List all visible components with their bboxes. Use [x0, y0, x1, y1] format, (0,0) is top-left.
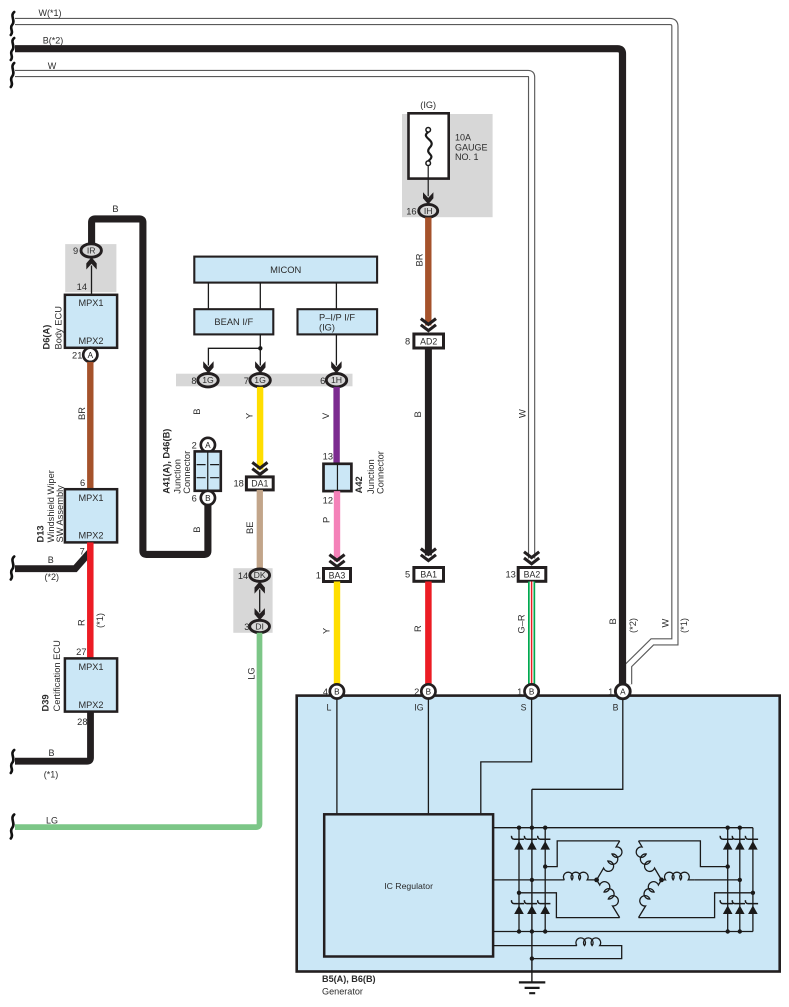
svg-text:14: 14	[77, 282, 87, 292]
svg-text:BR: BR	[414, 253, 424, 266]
wire branch to 1G-8	[203, 348, 260, 373]
fuse block gray box	[402, 114, 493, 217]
svg-text:A: A	[205, 441, 211, 450]
junction connector A42	[324, 464, 352, 491]
box IC Regulator	[324, 814, 493, 956]
svg-text:10A: 10A	[455, 133, 471, 143]
gray box IR	[65, 244, 116, 292]
wire junction to 1G-7	[255, 348, 265, 373]
label D39 Certification ECU	[41, 640, 63, 711]
wire W white feed	[15, 61, 532, 559]
terminal B generator pin 4 (L)	[323, 684, 344, 698]
connector BA2 pin 13	[505, 568, 545, 582]
svg-text:S: S	[521, 702, 527, 712]
wire G-R green-red BA2 to generator S	[517, 582, 532, 685]
wire MICON to BEAN right	[259, 283, 261, 310]
svg-text:W: W	[48, 61, 57, 71]
svg-text:MPX1: MPX1	[78, 662, 103, 672]
wire P pink A42 to BA3	[321, 491, 337, 561]
terminal A A41 pin 2	[192, 438, 215, 452]
svg-text:1: 1	[608, 687, 613, 697]
wire LG green DI to brace	[15, 633, 260, 827]
svg-text:A41(A), D46(B): A41(A), D46(B)	[162, 429, 172, 494]
stator left coil horizontal	[563, 872, 596, 880]
ECU D6(A) Body ECU MPX box	[65, 295, 117, 348]
wire BR brown	[414, 217, 428, 325]
label W (*1) vertical	[660, 618, 689, 633]
svg-text:B5(A), B6(B): B5(A), B6(B)	[322, 974, 376, 984]
wire MICON to BEAN left	[207, 283, 209, 310]
chevron into DA1	[252, 462, 267, 474]
svg-text:BEAN I/F: BEAN I/F	[214, 317, 253, 327]
svg-text:W: W	[660, 619, 670, 628]
svg-text:4: 4	[323, 687, 328, 697]
svg-text:B: B	[48, 748, 54, 758]
box P-I/P I/F (IG)	[298, 309, 378, 334]
terminal B A41 pin 6	[192, 491, 215, 505]
wire B thick IR loop to A41-B	[92, 204, 208, 555]
svg-text:13: 13	[505, 570, 515, 580]
chevron into BA1	[421, 549, 436, 561]
label S terminal	[481, 699, 532, 815]
svg-text:B: B	[426, 687, 432, 696]
ECU D39 Certification ECU MPX box	[65, 658, 117, 711]
label pin 7 D13	[80, 546, 85, 556]
svg-text:Connector: Connector	[376, 451, 386, 494]
stator right coil lower	[639, 880, 662, 918]
phase mid dots	[517, 864, 755, 895]
wire R red D13 to D39	[77, 542, 105, 658]
wire BR brown D6 to D13	[77, 362, 90, 489]
svg-text:1: 1	[517, 687, 522, 697]
svg-text:B: B	[205, 494, 211, 503]
svg-text:MPX1: MPX1	[78, 298, 103, 308]
svg-text:14: 14	[238, 571, 248, 581]
svg-text:Certification ECU: Certification ECU	[52, 640, 62, 711]
connector DA1 pin 18	[233, 477, 273, 490]
stator right coil upper	[636, 841, 661, 880]
label B above A41	[192, 409, 202, 415]
ground symbol	[519, 982, 545, 993]
svg-text:13: 13	[323, 451, 333, 461]
svg-text:8: 8	[191, 376, 196, 386]
svg-text:(*1): (*1)	[679, 618, 689, 633]
rectifier column 4	[739, 828, 741, 932]
svg-text:21: 21	[72, 350, 82, 360]
rectifier diodes	[511, 836, 758, 914]
label pin 28 D39	[77, 717, 87, 727]
svg-text:IH: IH	[424, 206, 433, 216]
svg-text:LG: LG	[46, 815, 58, 825]
svg-text:(*2): (*2)	[628, 618, 638, 633]
svg-text:AD2: AD2	[420, 336, 437, 346]
svg-text:B: B	[413, 411, 423, 417]
svg-text:2: 2	[414, 687, 419, 697]
label B (*2) vertical	[608, 618, 638, 633]
connector IH pin 16	[406, 204, 437, 217]
svg-text:D39: D39	[41, 694, 51, 711]
connector BA1 pin 5	[405, 568, 443, 582]
label D6(A) Body ECU	[42, 306, 64, 349]
svg-text:27: 27	[76, 647, 86, 657]
label B terminal	[532, 699, 623, 790]
svg-text:BA3: BA3	[329, 570, 346, 580]
connector IR pin 9	[73, 244, 101, 257]
chevron into BA3	[329, 555, 344, 567]
svg-text:V: V	[321, 412, 331, 419]
svg-text:DA1: DA1	[251, 479, 268, 489]
ECU D13 Windshield Wiper SW MPX box	[65, 489, 117, 542]
svg-text:IG: IG	[414, 702, 423, 712]
svg-text:12: 12	[323, 496, 333, 506]
svg-text:DI: DI	[255, 622, 264, 632]
stator left center node	[594, 878, 599, 883]
svg-text:DK: DK	[254, 570, 266, 580]
svg-text:7: 7	[80, 546, 85, 556]
curly brace B(*1) left	[11, 750, 14, 773]
svg-text:B(*2): B(*2)	[43, 36, 64, 46]
arrow into IR	[77, 257, 97, 295]
gray box DK DI	[233, 568, 272, 633]
svg-text:BA2: BA2	[524, 570, 541, 580]
curly brace W	[11, 63, 14, 87]
svg-text:(*2): (*2)	[45, 572, 60, 582]
svg-text:(*1): (*1)	[95, 613, 105, 628]
label pin 27 D39	[76, 647, 86, 657]
svg-text:B: B	[112, 204, 118, 214]
chevron into AD2	[421, 319, 436, 331]
curly brace LG left	[11, 815, 14, 839]
curly brace B(*2) left	[11, 557, 14, 580]
svg-text:Y: Y	[244, 413, 254, 419]
wire R red BA1 to generator IG	[413, 582, 428, 685]
rotor field winding	[493, 946, 622, 959]
terminal A D6 pin 21	[72, 348, 97, 362]
stator right center node	[659, 878, 664, 883]
label A42 Junction Connector	[354, 451, 386, 494]
connector DI pin 3	[244, 620, 269, 632]
svg-text:1G: 1G	[202, 375, 214, 385]
svg-text:(IG): (IG)	[319, 323, 335, 333]
svg-text:B: B	[48, 555, 54, 565]
stator left phase lines	[493, 841, 620, 918]
chevron into BA2	[524, 552, 539, 564]
terminal B generator pin 2 (IG)	[414, 684, 435, 698]
svg-text:Junction: Junction	[366, 459, 376, 494]
svg-text:9: 9	[73, 246, 78, 256]
svg-text:R: R	[77, 619, 87, 626]
svg-text:B: B	[192, 527, 202, 533]
connector 1G pin 8	[191, 374, 218, 387]
svg-text:MPX2: MPX2	[78, 531, 103, 541]
connector BA3 pin 1	[316, 569, 351, 582]
svg-text:A: A	[88, 351, 94, 360]
connector 1H pin 6	[320, 374, 347, 387]
svg-text:Connector: Connector	[182, 451, 192, 494]
wire fuse to IH	[423, 166, 433, 205]
box BEAN I/F	[194, 309, 273, 334]
connector 1G pin 7	[244, 374, 271, 387]
svg-text:GAUGE: GAUGE	[455, 142, 488, 152]
wire B thick branch to brace (*2)	[15, 551, 91, 582]
label D13 Windshield Wiper SW Assembly	[36, 470, 66, 542]
label A41(A) D46(B) Junction Connector	[162, 429, 193, 494]
terminal A generator pin 1 (B)	[608, 684, 630, 699]
svg-text:BA1: BA1	[420, 570, 437, 580]
rotor field coil	[576, 938, 601, 946]
wire MICON to P-I/P	[335, 283, 337, 310]
svg-text:B: B	[334, 687, 340, 696]
svg-text:Generator: Generator	[322, 987, 363, 997]
svg-text:D13: D13	[36, 525, 46, 542]
stator right coil horizontal	[662, 872, 695, 880]
svg-text:IC Regulator: IC Regulator	[384, 881, 433, 891]
svg-text:B: B	[192, 409, 202, 415]
svg-text:3: 3	[244, 622, 249, 632]
label W vertical	[518, 409, 528, 418]
svg-text:MPX1: MPX1	[78, 493, 103, 503]
stator left coil upper	[597, 841, 622, 880]
svg-text:D6(A): D6(A)	[42, 325, 52, 350]
svg-text:18: 18	[233, 479, 243, 489]
connector DK pin 14	[238, 569, 270, 581]
svg-text:BR: BR	[77, 407, 87, 420]
rectifier column 3	[727, 828, 729, 932]
wire B black AD2 to BA1	[413, 348, 428, 555]
rectifier column 2	[544, 828, 546, 932]
arrow pair DK to DI	[255, 581, 265, 620]
svg-text:28: 28	[77, 717, 87, 727]
svg-text:BE: BE	[245, 522, 255, 534]
rectifier top bus	[493, 827, 753, 829]
stator right phase lines	[639, 841, 753, 918]
svg-text:Y: Y	[321, 628, 331, 634]
rectifier column 5	[752, 828, 754, 932]
wire Y yellow BA3 to generator L	[321, 582, 337, 685]
svg-text:16: 16	[406, 206, 416, 216]
junction dots buses	[517, 826, 742, 934]
label pin 12 A42	[323, 496, 333, 506]
svg-text:W: W	[518, 409, 528, 418]
svg-text:P–I/P I/F: P–I/P I/F	[319, 312, 355, 322]
connector band gray 1G 1G 1H	[176, 374, 353, 387]
svg-text:IR: IR	[87, 246, 96, 256]
svg-text:8: 8	[405, 336, 410, 346]
wire BE beige DA1 to DK	[245, 490, 260, 569]
svg-text:B: B	[613, 702, 619, 712]
svg-text:A42: A42	[354, 476, 364, 493]
curly brace B(*2)	[11, 38, 14, 60]
wire W(*1) white feed top	[15, 8, 675, 684]
svg-text:NO. 1: NO. 1	[455, 152, 479, 162]
wire P-I/P to 1H-6	[331, 334, 341, 373]
svg-text:1G: 1G	[254, 375, 266, 385]
box MICON	[194, 257, 377, 283]
rectifier column 1	[518, 828, 520, 932]
svg-text:(*1): (*1)	[44, 770, 59, 780]
svg-text:G–R: G–R	[517, 614, 527, 633]
svg-text:2: 2	[192, 441, 197, 451]
svg-text:MPX2: MPX2	[78, 700, 103, 710]
svg-text:6: 6	[80, 478, 85, 488]
label B5(A) B6(B) Generator	[322, 974, 376, 996]
label pin 13 A42	[323, 451, 333, 461]
field junction dot	[530, 956, 534, 960]
wire V violet 1H to A42	[321, 387, 337, 464]
svg-text:7: 7	[244, 376, 249, 386]
svg-text:B: B	[529, 687, 535, 696]
svg-text:L: L	[327, 702, 332, 712]
svg-text:5: 5	[405, 570, 410, 580]
label pin 6 D13	[80, 478, 85, 488]
wire B thick D39 to brace (*1)	[15, 712, 91, 780]
svg-text:1: 1	[316, 570, 321, 580]
svg-text:SW Assembly: SW Assembly	[55, 485, 65, 543]
curly brace W(*1)	[11, 12, 14, 35]
svg-text:(IG): (IG)	[420, 100, 436, 110]
wire B bus to ground	[531, 789, 533, 982]
svg-text:Body ECU: Body ECU	[54, 306, 64, 349]
svg-text:Junction: Junction	[173, 459, 183, 494]
label (IG)	[420, 100, 436, 110]
junction connector A41(A) D46(B)	[195, 451, 221, 490]
svg-text:P: P	[321, 517, 331, 523]
label IG terminal	[414, 699, 428, 815]
svg-text:6: 6	[320, 376, 325, 386]
rectifier bottom bus	[493, 931, 753, 933]
svg-text:W(*1): W(*1)	[39, 8, 62, 18]
terminal B generator pin 1 (S)	[517, 684, 539, 698]
svg-text:MICON: MICON	[270, 264, 301, 275]
generator B5(A) B6(B) box	[297, 696, 780, 972]
svg-text:6: 6	[192, 494, 197, 504]
wire BEAN to junction dot	[259, 334, 261, 348]
svg-text:1H: 1H	[331, 375, 342, 385]
svg-text:LG: LG	[247, 667, 257, 679]
svg-text:R: R	[413, 625, 423, 632]
label L terminal	[327, 699, 337, 815]
node junction dot	[258, 346, 262, 350]
svg-text:MPX2: MPX2	[78, 336, 103, 346]
wire Y yellow 1G to DA1	[244, 387, 260, 470]
stator left coil lower	[597, 880, 620, 918]
wire B(*2) thick black feed	[15, 36, 623, 685]
label B below A41	[192, 527, 202, 533]
connector AD2 pin 8	[405, 334, 443, 348]
fuse 10A GAUGE NO. 1	[409, 113, 488, 178]
svg-text:A: A	[620, 687, 626, 696]
svg-text:B: B	[608, 618, 618, 624]
